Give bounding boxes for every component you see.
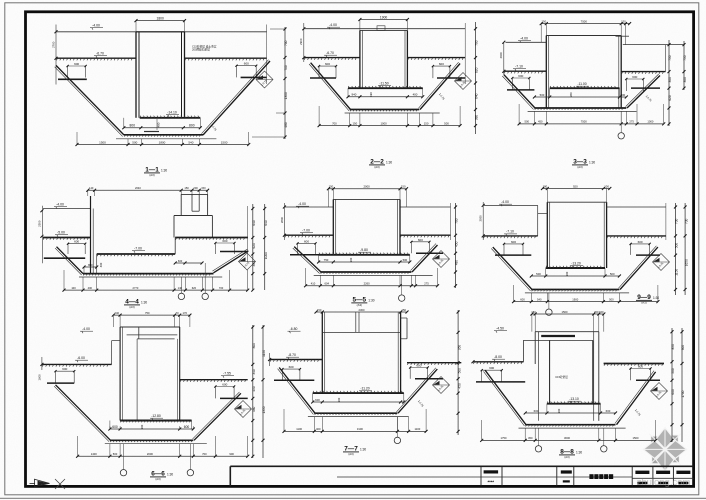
svg-text:1000: 1000 [647,120,653,124]
svg-text:-4.00: -4.00 [56,203,64,207]
svg-text:300: 300 [668,77,672,83]
svg-text:3100: 3100 [357,427,363,431]
svg-text:190: 190 [369,92,373,97]
svg-text:640: 640 [252,220,256,226]
svg-text:(A3): (A3) [129,305,134,309]
svg-text:2000: 2000 [363,185,370,189]
svg-text:300: 300 [140,424,144,429]
svg-text:(A3): (A3) [357,303,362,307]
svg-text:150: 150 [599,310,604,314]
svg-text:600: 600 [518,74,523,78]
svg-text:600: 600 [62,367,67,371]
svg-text:750: 750 [324,258,329,262]
svg-text:640: 640 [264,220,268,226]
svg-text:-8.70: -8.70 [288,353,296,357]
svg-text:-7.00: -7.00 [302,229,310,233]
svg-text:300: 300 [683,77,687,83]
svg-text:2260: 2260 [364,282,370,286]
svg-text:300: 300 [565,271,569,276]
svg-text:280: 280 [569,92,573,97]
svg-text:-11.50: -11.50 [379,81,388,85]
svg-text:800: 800 [189,124,195,128]
svg-text:700: 700 [675,219,679,225]
svg-text:1350: 1350 [262,406,266,413]
svg-text:450: 450 [538,120,543,124]
svg-text:1500: 1500 [221,140,228,144]
svg-text:2700: 2700 [51,41,55,48]
svg-text:400: 400 [88,286,93,290]
svg-text:150: 150 [317,308,322,312]
svg-text:1650: 1650 [684,259,688,266]
svg-text:750: 750 [145,311,150,315]
svg-text:275: 275 [629,120,634,124]
svg-text:(A3): (A3) [577,165,582,169]
svg-text:600: 600 [489,366,494,370]
svg-text:700: 700 [284,40,288,46]
svg-text:1100: 1100 [415,427,421,431]
svg-text:950: 950 [457,345,461,351]
svg-text:150: 150 [184,186,189,190]
svg-text:700: 700 [684,219,688,225]
svg-text:-6.70: -6.70 [96,52,104,56]
svg-text:700: 700 [455,218,459,224]
svg-text:140: 140 [178,286,183,290]
svg-text:(A3): (A3) [641,301,646,305]
svg-text:500: 500 [621,93,626,97]
svg-text:1:30: 1:30 [368,299,374,303]
svg-text:600: 600 [222,239,227,243]
svg-text:700: 700 [475,40,479,46]
svg-text:1000: 1000 [380,121,387,125]
svg-text:2900: 2900 [499,52,503,59]
svg-text:600: 600 [74,240,79,244]
svg-text:600: 600 [534,409,539,413]
svg-text:600: 600 [632,75,637,79]
svg-text:1:30: 1:30 [167,473,173,477]
svg-text:600: 600 [439,62,444,66]
svg-text:1900: 1900 [572,297,578,301]
svg-text:(A3): (A3) [155,477,160,481]
svg-text:1:30: 1:30 [576,451,582,455]
svg-text:1:30: 1:30 [161,169,167,173]
svg-text:600: 600 [418,238,423,242]
svg-text:300: 300 [557,408,561,413]
svg-text:900: 900 [229,452,234,456]
svg-text:480: 480 [284,122,288,128]
svg-text:-4.00: -4.00 [92,24,100,28]
svg-text:-4.00: -4.00 [82,327,90,331]
svg-text:100: 100 [604,184,609,188]
svg-text:200: 200 [193,186,198,190]
svg-text:-8.00: -8.00 [494,355,502,359]
svg-text:1150: 1150 [675,269,679,276]
svg-text:(A3): (A3) [564,455,569,459]
svg-text:150: 150 [401,185,406,189]
svg-text:450: 450 [528,436,533,440]
svg-text:-4.00: -4.00 [298,202,306,206]
svg-text:600: 600 [638,365,643,369]
svg-text:1150: 1150 [262,350,266,357]
svg-text:380: 380 [252,261,256,267]
svg-text:900: 900 [681,345,685,351]
svg-text:1300: 1300 [284,92,288,99]
svg-text:-6.80: -6.80 [290,327,298,331]
svg-text:700: 700 [284,65,288,71]
svg-text:600: 600 [244,62,249,66]
svg-text:400: 400 [413,93,418,97]
svg-text:340: 340 [252,369,256,375]
svg-text:1100: 1100 [296,427,302,431]
svg-text:1750: 1750 [501,436,507,440]
svg-text:3000: 3000 [564,436,570,440]
svg-text:-4.50: -4.50 [496,327,504,331]
svg-text:300: 300 [349,257,353,262]
svg-text:2770: 2770 [133,286,139,290]
svg-text:480: 480 [252,407,256,413]
svg-text:1500: 1500 [99,140,106,144]
svg-text:600: 600 [304,239,309,243]
svg-text:600: 600 [416,364,421,368]
svg-text:540: 540 [188,140,193,144]
svg-text:600: 600 [638,240,643,244]
svg-text:600: 600 [289,365,294,369]
svg-text:-6.70: -6.70 [326,51,334,55]
svg-text:600: 600 [222,383,227,387]
svg-text:2800: 2800 [280,216,284,223]
svg-text:800: 800 [130,124,136,128]
svg-text:1:30: 1:30 [141,301,147,305]
svg-text:450: 450 [252,386,256,392]
svg-text:500: 500 [675,243,679,249]
svg-text:2500: 2500 [37,220,41,227]
svg-text:-4.00: -4.00 [329,23,337,27]
svg-text:400: 400 [157,122,161,127]
svg-text:-7.55: -7.55 [223,372,231,376]
svg-text:500: 500 [671,368,675,374]
svg-text:410: 410 [311,282,316,286]
svg-text:600: 600 [520,297,525,301]
svg-text:800: 800 [88,263,93,267]
svg-text:1000: 1000 [264,252,268,259]
svg-text:7500: 7500 [581,19,588,23]
svg-text:480: 480 [455,260,459,266]
svg-text:700: 700 [202,452,207,456]
svg-text:600: 600 [112,425,118,429]
svg-text:620: 620 [475,67,479,73]
svg-text:7500: 7500 [581,120,587,124]
svg-text:600: 600 [74,62,79,66]
svg-text:600: 600 [315,398,320,402]
svg-text:640: 640 [475,93,479,99]
svg-text:500: 500 [113,452,118,456]
svg-text:2900: 2900 [299,38,303,45]
svg-text:-6.00: -6.00 [77,356,85,360]
svg-text:150: 150 [541,19,546,23]
svg-text:600: 600 [671,389,675,395]
svg-text:(A3): (A3) [348,452,353,456]
svg-text:1900: 1900 [380,15,388,19]
svg-text:150: 150 [424,121,429,125]
svg-text:600: 600 [606,409,611,413]
svg-text:600: 600 [184,425,190,429]
svg-text:zhulong.com: zhulong.com [637,477,691,488]
svg-text:-7.00: -7.00 [134,247,142,251]
svg-text:240: 240 [114,311,119,315]
svg-text:450: 450 [455,241,459,247]
svg-text:-14.10: -14.10 [167,111,177,115]
svg-text:700: 700 [219,286,224,290]
svg-text:604: 604 [325,282,330,286]
svg-text:2000: 2000 [147,452,153,456]
svg-text:-7.10: -7.10 [515,65,523,69]
svg-text:(A3): (A3) [374,165,379,169]
svg-text:150: 150 [352,121,357,125]
svg-text:275: 275 [424,282,429,286]
svg-text:1:30: 1:30 [360,448,366,452]
svg-text:-5.00: -5.00 [57,231,65,235]
svg-text:70: 70 [176,311,179,315]
svg-text:700: 700 [332,121,337,125]
svg-text:500: 500 [609,297,614,301]
svg-text:150: 150 [201,186,206,190]
svg-text:400: 400 [316,427,321,431]
svg-text:500: 500 [536,272,541,276]
svg-text:500: 500 [610,272,615,276]
svg-text:1:30: 1:30 [386,161,392,165]
svg-text:450: 450 [457,383,461,389]
svg-text:300: 300 [337,397,341,402]
svg-text:500: 500 [444,121,449,125]
svg-text:940: 940 [351,93,356,97]
svg-text:100: 100 [71,286,76,290]
svg-text:1:30: 1:30 [589,161,595,165]
svg-text:-9.80: -9.80 [360,248,368,252]
svg-text:-13.20: -13.20 [571,262,581,266]
svg-text:800: 800 [252,343,256,349]
svg-text:500: 500 [132,140,137,144]
svg-text:1600: 1600 [37,374,41,381]
svg-text:(A3): (A3) [149,173,154,177]
svg-text:2040: 2040 [135,186,141,190]
svg-text:200厚碎石垫层: 200厚碎石垫层 [192,48,210,52]
svg-text:-11.00: -11.00 [577,82,586,86]
svg-text:540: 540 [537,297,542,301]
svg-text:150: 150 [329,185,334,189]
svg-text:850: 850 [671,344,675,350]
svg-text:-4.00: -4.00 [520,37,528,41]
svg-text:-13.10: -13.10 [569,397,579,401]
svg-text:****: **** [488,479,495,484]
svg-text:600: 600 [325,62,330,66]
svg-text:170: 170 [183,311,188,315]
svg-text:620: 620 [252,243,256,249]
svg-text:1700: 1700 [681,390,685,397]
svg-text:140: 140 [89,186,94,190]
svg-text:150: 150 [402,308,407,312]
svg-text:1500: 1500 [562,310,568,314]
svg-text:1400: 1400 [91,452,97,456]
svg-text:600: 600 [511,240,516,244]
svg-text:C15砼垫层: C15砼垫层 [555,375,568,379]
svg-text:500: 500 [403,258,408,262]
svg-text:180: 180 [543,184,548,188]
svg-text:2300: 2300 [359,308,365,312]
svg-text:600: 600 [178,259,183,263]
svg-text:500: 500 [525,120,530,124]
svg-text:-7.10: -7.10 [506,230,514,234]
svg-text:-12.80: -12.80 [151,414,161,418]
svg-text:1:30: 1:30 [653,296,659,300]
svg-text:3050: 3050 [479,215,483,222]
svg-text:150: 150 [531,310,536,314]
svg-text:1800: 1800 [159,140,166,144]
svg-text:150: 150 [621,19,626,23]
svg-text:500: 500 [457,368,461,374]
svg-text:500: 500 [540,93,545,97]
svg-text:620: 620 [668,95,672,101]
svg-text:1800: 1800 [157,16,165,20]
svg-text:920: 920 [573,184,578,188]
svg-text:750: 750 [668,55,672,61]
svg-text:620: 620 [192,286,197,290]
svg-text:750: 750 [683,55,687,61]
svg-text:400: 400 [99,262,103,267]
svg-text:1500: 1500 [633,436,639,440]
svg-text:-4.00: -4.00 [501,200,509,204]
svg-text:-11.20: -11.20 [360,387,369,391]
svg-text:380: 380 [475,115,479,121]
